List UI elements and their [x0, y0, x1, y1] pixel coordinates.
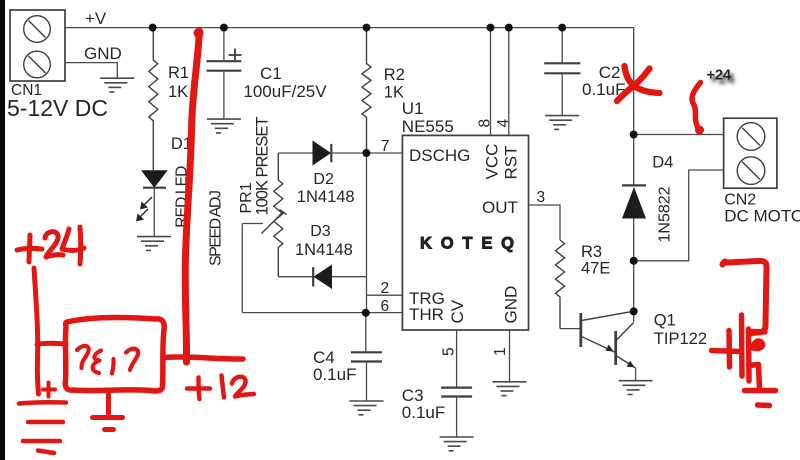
svg-text:D2: D2 — [313, 171, 334, 188]
svg-text:7: 7 — [381, 138, 390, 155]
ground C3 — [440, 437, 474, 451]
red annotation +12 text — [187, 376, 254, 400]
svg-text:NE555: NE555 — [402, 117, 454, 136]
red annotation gate cross bar — [726, 331, 732, 368]
svg-text:1N5822: 1N5822 — [657, 186, 674, 242]
wire CN1 GND — [65, 63, 117, 79]
wire D2/D3 vertical to pins 2,6 — [367, 153, 403, 313]
svg-text:Q1: Q1 — [654, 312, 676, 330]
red annotation +24 bottom left — [17, 227, 84, 264]
ground D1 — [137, 237, 171, 251]
svg-text:1N4148: 1N4148 — [295, 241, 353, 259]
svg-text:1N4148: 1N4148 — [297, 188, 355, 206]
red annotation 7812 text — [77, 346, 138, 374]
node C2 top — [558, 24, 566, 32]
svg-text:47E: 47E — [581, 260, 610, 278]
resistor R3 — [556, 240, 565, 329]
svg-text:R1: R1 — [168, 64, 189, 82]
wire +V rail — [65, 28, 634, 135]
svg-text:D4: D4 — [652, 154, 673, 172]
red annotation mosfet ground bar — [745, 388, 776, 394]
svg-text:C1: C1 — [260, 64, 282, 83]
svg-text:RST: RST — [502, 146, 521, 180]
node D4 cathode — [630, 131, 638, 139]
wire pin4 RST — [508, 28, 510, 136]
op IC U1 NE555 body — [402, 135, 528, 330]
red annotation mosfet gate lead — [712, 351, 741, 352]
svg-text:5: 5 — [441, 347, 458, 356]
ground C4 — [350, 401, 384, 415]
red annotation wire from +24 down — [34, 268, 39, 394]
red annotation plus near battery — [43, 383, 55, 397]
svg-text:3: 3 — [537, 189, 546, 206]
connector CN1 — [10, 10, 65, 81]
node pin8 top — [487, 24, 495, 32]
red annotation squiggle wire to CN2 — [692, 83, 701, 131]
red annotation mosfet ground dash — [758, 402, 770, 408]
red annotation battery / ground bars — [19, 402, 66, 453]
svg-text:D3: D3 — [310, 223, 331, 240]
red annotation thick +12 feed line — [185, 31, 199, 362]
svg-text:2: 2 — [381, 280, 390, 297]
diode D3 — [278, 276, 313, 278]
capacitor C2 — [561, 28, 563, 64]
preset PR1 — [274, 153, 283, 277]
red annotation mosfet gate bar — [739, 315, 745, 376]
red annotation +12 output line — [164, 357, 243, 359]
diode D2 — [278, 152, 312, 154]
wire to CN2 top — [634, 134, 724, 136]
ground pin1 — [493, 382, 527, 396]
diode D4 — [633, 135, 635, 186]
node D4 anode — [630, 257, 638, 265]
svg-text:THR: THR — [409, 305, 444, 324]
wire base Q1 — [560, 328, 581, 330]
svg-text:8: 8 — [477, 119, 494, 128]
node pin6 — [362, 309, 370, 317]
wire to CN2 bottom — [634, 170, 724, 261]
wire THR pin6 — [242, 312, 402, 314]
left edge black strip — [0, 0, 5, 460]
svg-text:R3: R3 — [581, 243, 602, 261]
wire wiper to THR — [241, 224, 243, 313]
LED D1 — [141, 170, 168, 187]
svg-text:1K: 1K — [168, 83, 188, 101]
node R1 top — [149, 24, 157, 32]
svg-text:SPEED ADJ: SPEED ADJ — [208, 190, 225, 266]
ground C2 — [545, 116, 579, 130]
wire pin8 VCC — [490, 28, 492, 136]
svg-text:5-12V DC: 5-12V DC — [7, 95, 108, 121]
svg-text:0.1uF: 0.1uF — [313, 365, 356, 384]
node R2 top — [363, 24, 371, 32]
svg-text:+24: +24 — [707, 68, 732, 84]
red annotation X over C2 wire — [625, 66, 660, 93]
red annotation wire to 7812 box — [37, 343, 66, 344]
svg-text:0.1uF: 0.1uF — [402, 403, 445, 422]
red annotation mosfet arrow loop — [751, 340, 764, 351]
red annotation mosfet channel bar — [746, 329, 752, 381]
node Q1 collector — [630, 307, 638, 315]
connector CN2 — [724, 118, 777, 188]
resistor R2 — [362, 28, 371, 153]
svg-text:CV: CV — [448, 299, 467, 323]
svg-text:R2: R2 — [384, 66, 405, 84]
capacitor C3 — [441, 387, 472, 389]
ground Q1 — [619, 381, 653, 395]
ground CN1 — [100, 78, 134, 92]
PR1 wiper — [242, 223, 263, 225]
svg-text:U1: U1 — [402, 99, 424, 118]
capacitor C4 — [365, 313, 367, 353]
transistor Q1 darlington — [579, 313, 582, 347]
node pin7 — [362, 149, 370, 157]
svg-text:OUT: OUT — [482, 198, 518, 217]
node pin4 top — [505, 24, 513, 32]
svg-text:PR1: PR1 — [238, 182, 255, 213]
wire pin5 CV — [456, 330, 458, 388]
red annotation mosfet source stub — [749, 365, 760, 390]
svg-text:6: 6 — [381, 298, 390, 315]
ground C1 — [207, 119, 241, 133]
svg-text:DSCHG: DSCHG — [409, 146, 470, 165]
red annotation mosfet drain stub — [750, 329, 766, 335]
red annotation ground under box — [93, 392, 123, 430]
svg-text:GND: GND — [502, 286, 521, 324]
capacitor C1 — [223, 28, 225, 62]
svg-text:100uF/25V: 100uF/25V — [243, 82, 327, 101]
LED arrows — [138, 197, 152, 219]
red annotation mosfet sketch top bracket — [723, 261, 767, 333]
svg-text:GND: GND — [84, 44, 122, 63]
node C1 top — [220, 24, 228, 32]
svg-text:1: 1 — [492, 347, 509, 356]
svg-text:VCC: VCC — [483, 144, 502, 180]
wire pin7 — [367, 152, 403, 154]
svg-text:DC MOTOR: DC MOTOR — [724, 207, 800, 226]
resistor R1 — [149, 28, 158, 171]
svg-text:100K PRESET: 100K PRESET — [254, 117, 272, 216]
svg-text:4: 4 — [495, 119, 512, 128]
wire pin1 GND — [509, 330, 511, 382]
svg-text:+V: +V — [85, 9, 107, 28]
wire OUT pin3 — [529, 205, 561, 240]
svg-text:TIP122: TIP122 — [654, 330, 707, 348]
red annotation 7812 box — [65, 317, 164, 391]
